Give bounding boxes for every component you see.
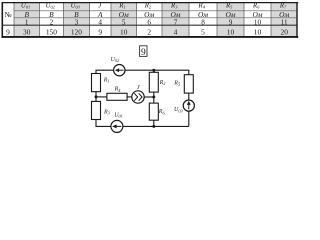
wire: R5 to source U03 [188, 93, 190, 100]
current source J [132, 91, 144, 103]
arrow of U01 (points left) [112, 124, 121, 128]
wire: R3 to bottom-left corner to source U01 [96, 120, 111, 127]
svg-text:R2: R2 [159, 80, 167, 86]
node: bottom junction [152, 125, 155, 128]
resistor R6 [149, 103, 158, 120]
svg-text:6: 6 [147, 18, 151, 26]
svg-text:4: 4 [98, 18, 102, 26]
table outer border [2, 2, 299, 4]
svg-text:9: 9 [6, 27, 10, 36]
voltage source U03 [183, 100, 194, 111]
svg-text:2: 2 [50, 18, 54, 26]
svg-text:9: 9 [229, 18, 233, 26]
svg-text:3: 3 [75, 18, 79, 26]
svg-text:J: J [98, 3, 102, 10]
table header texts row1 [4, 3, 287, 20]
svg-text:R3: R3 [103, 110, 110, 116]
svg-text:J: J [137, 84, 141, 91]
svg-text:№: № [4, 10, 11, 19]
chevrons of J (point right) [134, 93, 142, 100]
wire: U03 to bottom-right corner [188, 111, 190, 126]
svg-text:20: 20 [281, 27, 289, 36]
svg-text:30: 30 [23, 27, 31, 36]
wire: R6 to bottom node [153, 120, 155, 126]
node: top of middle branch [152, 69, 155, 72]
table data row [6, 27, 288, 36]
wire: top node down to R2 [153, 70, 155, 72]
node: center junction [152, 96, 155, 99]
svg-text:5: 5 [201, 27, 205, 36]
svg-text:R1: R1 [103, 77, 110, 83]
table shaded columns [14, 2, 298, 38]
svg-text:U02: U02 [46, 3, 56, 10]
svg-text:150: 150 [46, 27, 57, 36]
svg-text:10: 10 [254, 27, 262, 36]
wire: U02 to top-right corner [125, 70, 189, 75]
table grid lines [14, 2, 298, 38]
svg-text:9: 9 [141, 48, 146, 58]
svg-text:9: 9 [98, 27, 102, 36]
wire: left node to R4 [96, 96, 107, 98]
arrow of U03 (points up) [187, 101, 191, 110]
wire: R4 to current source J [127, 96, 132, 98]
svg-text:5: 5 [122, 18, 126, 26]
svg-text:U02: U02 [111, 57, 120, 63]
svg-text:R4: R4 [198, 3, 206, 10]
resistor R4 [107, 93, 127, 100]
svg-text:7: 7 [174, 18, 178, 26]
svg-text:R4: R4 [114, 87, 122, 93]
svg-text:10: 10 [120, 27, 128, 36]
wire: center node to R6 [153, 97, 155, 103]
table line above data row [2, 24, 298, 26]
table numbers row [25, 18, 288, 26]
svg-text:4: 4 [174, 27, 178, 36]
arrow of U02 (points left) [115, 68, 124, 72]
wire: R2 to center node [153, 92, 155, 97]
wire: left node to R3 [95, 97, 97, 102]
svg-text:10: 10 [254, 18, 262, 26]
svg-text:1: 1 [25, 18, 29, 26]
node: left junction [95, 95, 98, 98]
svg-text:2: 2 [147, 27, 151, 36]
svg-text:R6: R6 [252, 3, 260, 10]
resistor R3 [92, 101, 101, 119]
wire: J to center node [144, 96, 154, 98]
wire: U01 to bottom-right corner [123, 125, 189, 127]
svg-text:11: 11 [281, 18, 288, 26]
wire: R1 to left node [95, 92, 97, 97]
resistor R1 [92, 74, 101, 92]
resistor R2 [149, 72, 158, 92]
svg-text:R5: R5 [173, 81, 181, 87]
voltage source U02 [114, 65, 125, 76]
table units row [24, 10, 289, 19]
variant number box 9 [140, 46, 147, 58]
svg-text:8: 8 [201, 18, 205, 26]
wire: top-left corner to source U02 [96, 70, 114, 73]
svg-text:U03: U03 [174, 107, 183, 113]
voltage source U01 [111, 120, 123, 132]
svg-text:U01: U01 [114, 113, 123, 119]
svg-text:R6: R6 [158, 109, 166, 115]
resistor R5 [184, 75, 193, 93]
svg-text:10: 10 [227, 27, 235, 36]
svg-text:120: 120 [71, 27, 82, 36]
svg-text:R2: R2 [144, 3, 152, 10]
